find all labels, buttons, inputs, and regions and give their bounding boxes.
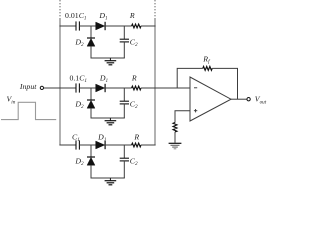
wire stage1: C2 to ground rail (123, 42, 125, 58)
wire stage2: node to shunt diode D2 (90, 88, 92, 100)
svg-text:D1: D1 (98, 11, 108, 22)
resistor (non-inverting input to ground) (173, 123, 177, 132)
wire stage3: capacitor to diode D1 anode (79, 144, 95, 146)
wire stage3: D1 cathode to resistor R (105, 144, 132, 146)
wire stage2: D2 anode to ground rail (90, 108, 92, 118)
svg-text:0.1C1: 0.1C1 (69, 73, 87, 84)
wire: resistor to ground (174, 132, 176, 143)
svg-text:Vin: Vin (7, 95, 16, 106)
capacitor 0.1C1 (series) (69, 73, 87, 92)
wire: input terminal to bus (44, 87, 60, 89)
resistor Rf (202, 54, 212, 70)
diode D1 stage3 (series, pointing right) (96, 132, 107, 149)
ground stage3 (105, 178, 117, 185)
wire: Rf to output node (212, 68, 237, 99)
diode D1 stage1 (series, pointing right) (96, 11, 108, 30)
input square waveform (1, 102, 56, 119)
wire stage1: ground rail (91, 57, 125, 59)
wire: feedback loop (177, 68, 203, 88)
wire stage2: C2 to ground rail (123, 104, 125, 118)
diode D2 stage3 (shunt, pointing up) (74, 156, 95, 167)
wire stage2: node to shunt capacitor C2 (123, 88, 125, 101)
capacitor 0.01C1 (series) (65, 11, 87, 31)
wire stage1: node to shunt capacitor C2 (123, 26, 125, 39)
ground stage1 (105, 58, 117, 65)
svg-text:Rf: Rf (202, 54, 211, 65)
svg-text:D2: D2 (74, 37, 84, 48)
svg-text:D1: D1 (97, 132, 107, 143)
resistor R stage3 (132, 132, 141, 147)
wire stage3: bus to capacitor C1 (60, 144, 77, 146)
wire: op-amp output (231, 98, 247, 100)
wire stage3: node to shunt capacitor C2 (123, 145, 125, 158)
wire stage1: bus to capacitor 0.01C1 (60, 25, 77, 27)
capacitor C1 (series) (72, 132, 80, 149)
svg-text:Input: Input (19, 82, 37, 91)
wire stage1: capacitor to diode D1 anode (79, 25, 95, 27)
resistor R stage1 (129, 11, 141, 28)
wire stage3: resistor R to summing bus (141, 144, 156, 146)
resistor R stage2 (131, 73, 141, 90)
svg-text:C1: C1 (72, 132, 80, 143)
svg-text:0.01C1: 0.01C1 (65, 11, 87, 22)
capacitor C2 stage2 (shunt) (120, 99, 138, 110)
diode D1 stage2 (series, pointing right) (96, 73, 109, 92)
right summing bus continuation (dotted) (154, 0, 156, 19)
svg-text:D2: D2 (74, 99, 84, 110)
wire stage1: D1 cathode to resistor R (105, 25, 132, 27)
ground stage2 (105, 118, 117, 125)
ground (op-amp non-inverting input) (169, 143, 182, 149)
capacitor C2 stage3 (shunt) (120, 156, 138, 167)
svg-text:C2: C2 (130, 37, 138, 48)
wire stage3: node to shunt diode D2 (90, 145, 92, 157)
wire: non-inverting input (175, 111, 190, 123)
output terminal (247, 98, 250, 101)
svg-text:C2: C2 (130, 99, 138, 110)
capacitor C2 stage1 (shunt) (120, 37, 138, 48)
wire stage1: D2 anode to ground rail (90, 46, 92, 58)
wire stage2: resistor R to summing bus (141, 87, 156, 89)
diode D2 stage2 (shunt, pointing up) (74, 99, 95, 110)
wire stage2: bus to capacitor 0.1C1 (60, 87, 77, 89)
wire stage3: ground rail (91, 177, 125, 179)
svg-text:C2: C2 (130, 156, 138, 167)
left input bus (59, 19, 61, 146)
left input bus continuation (dotted) (59, 0, 61, 19)
wire stage1: node to shunt diode D2 (90, 26, 92, 38)
input terminal (40, 86, 43, 89)
wire stage1: resistor R to summing bus (141, 25, 156, 27)
svg-text:R: R (131, 73, 137, 82)
wire stage2: ground rail (91, 117, 125, 119)
svg-text:D2: D2 (74, 156, 84, 167)
svg-text:R: R (129, 11, 135, 20)
wire stage3: D2 anode to ground rail (90, 165, 92, 178)
right summing bus (154, 19, 156, 146)
svg-text:D1: D1 (99, 73, 109, 84)
wire stage2: D1 cathode to resistor R (105, 87, 132, 89)
wire stage2: capacitor to diode D1 anode (79, 87, 95, 89)
svg-text:Vout: Vout (255, 95, 267, 106)
wire: summing bus to op-amp inverting input (155, 87, 190, 89)
op-amp U1 (190, 77, 231, 121)
diode D2 stage1 (shunt, pointing up) (74, 37, 95, 48)
wire stage3: C2 to ground rail (123, 161, 125, 178)
svg-text:R: R (133, 132, 139, 141)
